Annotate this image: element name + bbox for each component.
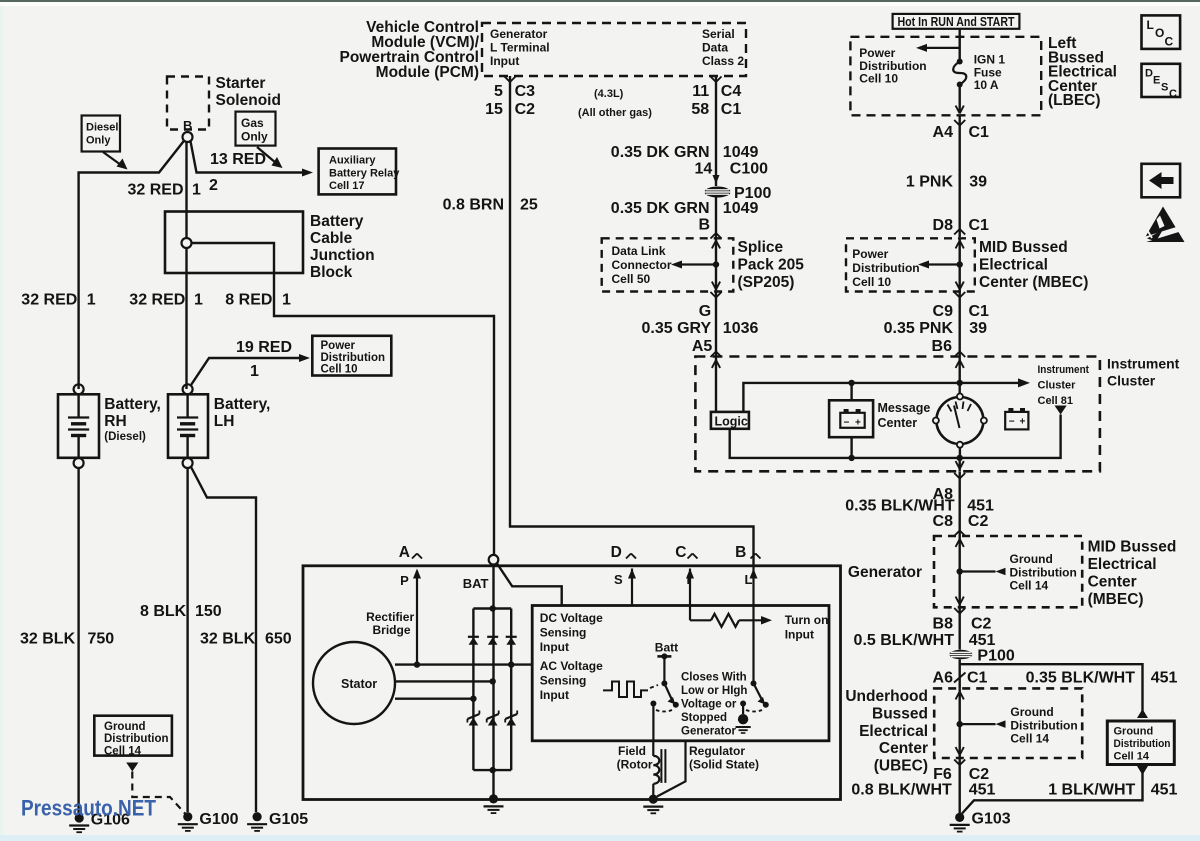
Diesel Only arrow	[103, 152, 121, 165]
svg-text:Splice: Splice	[738, 239, 784, 256]
cluster bottom bus	[730, 415, 1061, 458]
svg-text:Cable: Cable	[310, 230, 353, 247]
svg-text:11: 11	[692, 83, 709, 100]
stator output lines	[395, 663, 532, 665]
Ground Distribution Cell 14 box (left)	[94, 716, 172, 756]
battery LH	[183, 384, 193, 394]
svg-text:Data Link: Data Link	[612, 244, 666, 258]
A5 wire into logic	[715, 357, 717, 412]
svg-text:C1: C1	[721, 101, 742, 118]
ground G106	[75, 813, 84, 822]
svg-text:B6: B6	[932, 338, 953, 355]
svg-text:C: C	[1169, 88, 1177, 100]
svg-text:39: 39	[969, 320, 987, 337]
svg-text:Battery,: Battery,	[214, 396, 271, 413]
svg-text:Class 2: Class 2	[702, 54, 744, 68]
field ground	[649, 795, 658, 804]
DC voltage regulator box	[532, 606, 829, 741]
switch 1 to field	[652, 704, 654, 741]
svg-text:Only: Only	[86, 135, 111, 147]
svg-text:L Terminal: L Terminal	[490, 41, 550, 55]
svg-text:Cell 17: Cell 17	[329, 180, 364, 192]
wire: 0.35 PNK 39	[954, 292, 960, 298]
svg-text:1049: 1049	[723, 144, 759, 161]
cluster top bus	[743, 383, 1020, 412]
svg-text:Message: Message	[878, 401, 931, 415]
stator	[313, 642, 395, 724]
svg-text:14: 14	[695, 161, 713, 178]
svg-text:1 BLK/WHT: 1 BLK/WHT	[1048, 782, 1135, 799]
svg-text:Underhood: Underhood	[845, 688, 928, 705]
svg-text:LH: LH	[214, 413, 235, 430]
svg-text:Connector: Connector	[612, 258, 672, 272]
wire: battery RH to G106	[77, 468, 79, 814]
ground G100	[183, 812, 192, 821]
svg-text:Low or HIgh: Low or HIgh	[681, 685, 747, 697]
svg-text:C3: C3	[515, 83, 536, 100]
svg-text:B8: B8	[933, 616, 954, 633]
svg-text:19 RED: 19 RED	[236, 339, 292, 356]
wire: 32 RED junction block to battery LH	[185, 248, 187, 389]
svg-text:P: P	[400, 573, 409, 588]
svg-text:C100: C100	[730, 161, 768, 178]
svg-text:5: 5	[494, 83, 503, 100]
bridge diodes bottom (avalanche)	[467, 714, 479, 719]
svg-text:451: 451	[969, 632, 996, 649]
switch 1 (voltage relay contacts)	[661, 680, 667, 686]
svg-text:G103: G103	[972, 811, 1011, 828]
svg-text:A: A	[399, 544, 410, 561]
svg-text:1: 1	[282, 292, 291, 309]
svg-text:32 RED: 32 RED	[21, 292, 77, 309]
svg-text:Cell 10: Cell 10	[852, 275, 891, 289]
svg-text:Battery: Battery	[310, 213, 364, 230]
A6 C1 connector	[954, 673, 966, 683]
svg-text:F6: F6	[933, 766, 952, 783]
svg-text:(UBEC): (UBEC)	[874, 758, 928, 775]
svg-text:Center: Center	[878, 416, 918, 430]
svg-text:Battery,: Battery,	[104, 396, 161, 413]
svg-text:650: 650	[265, 631, 292, 648]
svg-text:C4: C4	[721, 83, 742, 100]
page top border line	[0, 0, 1200, 2]
svg-text:Hot In RUN And START: Hot In RUN And START	[898, 15, 1015, 29]
svg-text:451: 451	[1151, 670, 1178, 687]
svg-text:Input: Input	[785, 628, 814, 642]
svg-text:Distribution: Distribution	[1010, 718, 1077, 732]
BAT branch to DC voltage box	[497, 563, 562, 605]
svg-text:Ground: Ground	[1010, 705, 1053, 719]
svg-text:Cell 10: Cell 10	[321, 364, 358, 376]
wire from hot box into LBEC	[959, 29, 961, 61]
svg-text:(Rotor: (Rotor	[617, 758, 653, 772]
svg-text:C1: C1	[967, 670, 988, 687]
svg-text:Battery Relay: Battery Relay	[329, 167, 400, 179]
svg-text:Sensing: Sensing	[540, 674, 587, 688]
wire: 32 RED solenoid to junction block	[185, 142, 187, 238]
svg-text:O: O	[1155, 26, 1164, 40]
svg-text:32 BLK: 32 BLK	[200, 631, 256, 648]
svg-text:0.8 BRN: 0.8 BRN	[443, 197, 504, 214]
svg-text:Batt: Batt	[655, 641, 678, 655]
svg-text:Cell 81: Cell 81	[1038, 395, 1073, 407]
svg-text:C8: C8	[933, 513, 954, 530]
arrow to data link connector	[680, 263, 716, 265]
svg-text:0.35 DK GRN: 0.35 DK GRN	[611, 144, 710, 161]
Hot In RUN And START box	[893, 14, 1020, 29]
generator internal ground (bridge)	[489, 794, 498, 803]
svg-text:L: L	[1147, 18, 1154, 32]
gauge ticks and needle	[948, 405, 952, 412]
regulator to field/ground link	[657, 741, 686, 797]
MBEC ground distribution dashed box	[934, 536, 1082, 607]
svg-text:Cell 14: Cell 14	[1114, 751, 1150, 763]
IGN 1 fuse	[957, 59, 963, 65]
svg-text:−: −	[844, 417, 850, 428]
LBEC dashed box	[850, 37, 1041, 116]
svg-text:1: 1	[87, 292, 96, 309]
svg-text:Cluster: Cluster	[1038, 380, 1077, 392]
svg-text:Input: Input	[540, 688, 569, 702]
svg-text:(MBEC): (MBEC)	[1088, 591, 1144, 608]
svg-text:Bridge: Bridge	[373, 623, 411, 637]
svg-text:BAT: BAT	[463, 576, 489, 591]
arrowhead into P100	[713, 175, 720, 184]
svg-text:C: C	[675, 544, 686, 561]
svg-text:Ground: Ground	[1010, 552, 1053, 566]
svg-text:13 RED: 13 RED	[210, 151, 266, 168]
Power Distribution Cell 10 box	[312, 336, 391, 376]
svg-text:451: 451	[1151, 782, 1178, 799]
solenoid B terminal circle	[183, 132, 193, 142]
svg-text:A4: A4	[933, 124, 954, 141]
svg-text:B: B	[698, 217, 710, 234]
gauge to bottom bus	[959, 448, 961, 458]
svg-text:−: −	[1009, 417, 1015, 428]
Logic box	[711, 412, 749, 429]
svg-text:C1: C1	[969, 217, 990, 234]
svg-text:D: D	[1145, 68, 1153, 80]
UBEC dashed box	[934, 688, 1082, 758]
svg-text:Starter: Starter	[216, 75, 266, 92]
svg-text:S: S	[1161, 82, 1168, 94]
svg-text:Solenoid: Solenoid	[216, 92, 281, 109]
svg-text:Cell 14: Cell 14	[1010, 732, 1049, 746]
svg-text:1036: 1036	[723, 320, 759, 337]
svg-text:C2: C2	[968, 513, 989, 530]
svg-text:B: B	[183, 118, 192, 133]
voltage square wave symbol	[603, 682, 648, 698]
Data Link Connector dashed box / splice pack 205	[602, 238, 734, 291]
DESC icon	[1142, 64, 1181, 97]
svg-text:G: G	[699, 303, 711, 320]
wire through splice pack	[715, 238, 717, 291]
generator outer box	[303, 566, 841, 800]
gauge	[936, 397, 983, 444]
svg-text:C1: C1	[969, 303, 990, 320]
BAT wire down through bridge	[492, 565, 494, 799]
dashed ground link to G100	[132, 772, 185, 814]
svg-text:0.8 BLK/WHT: 0.8 BLK/WHT	[851, 782, 952, 799]
svg-text:E: E	[1153, 75, 1160, 87]
message center box	[848, 380, 854, 386]
VCM/PCM dashed box	[482, 23, 746, 76]
svg-text:C9: C9	[933, 303, 954, 320]
connector A4/C1	[954, 120, 960, 126]
svg-text:+: +	[1020, 417, 1026, 428]
svg-text:Module (PCM): Module (PCM)	[376, 64, 479, 81]
svg-text:Rectifier: Rectifier	[366, 610, 414, 624]
wire: 0.35 GRY to instrument cluster	[711, 292, 717, 298]
svg-text:Stopped: Stopped	[681, 712, 727, 724]
wire: 1 BLK/WHT 451 from right GD box to G103	[1137, 766, 1148, 775]
svg-text:Closes With: Closes With	[681, 672, 747, 684]
wire: battery LH bottom to G105 via 650	[191, 468, 256, 813]
svg-text:Input: Input	[540, 640, 569, 654]
splice P100 (lower)	[949, 650, 972, 660]
wire: 0.8 BLK/WHT 451 to G103	[954, 760, 960, 766]
svg-text:(Diesel): (Diesel)	[104, 431, 146, 443]
svg-text:Electrical: Electrical	[979, 257, 1048, 274]
svg-text:Cell 14: Cell 14	[1010, 579, 1049, 593]
svg-text:Power: Power	[852, 247, 888, 261]
ground G105	[253, 812, 262, 821]
svg-text:32 BLK: 32 BLK	[20, 631, 76, 648]
svg-text:Field: Field	[618, 744, 646, 758]
svg-text:(All other gas): (All other gas)	[578, 107, 652, 119]
small battery telltale	[1005, 412, 1028, 430]
svg-text:1: 1	[192, 182, 201, 199]
ESD warning symbol	[1143, 207, 1185, 243]
svg-text:Sensing: Sensing	[540, 626, 587, 640]
svg-text:(SP205): (SP205)	[738, 274, 795, 291]
svg-text:39: 39	[969, 174, 987, 191]
wire: diesel branch horizontal	[79, 141, 184, 389]
svg-text:32 RED: 32 RED	[128, 182, 184, 199]
turn on input resistor	[690, 619, 711, 621]
svg-text:Power: Power	[321, 340, 356, 352]
svg-text:Stator: Stator	[341, 677, 377, 691]
back arrow icon	[1142, 164, 1181, 198]
Gas Only box	[236, 112, 276, 146]
svg-text:Input: Input	[490, 54, 519, 68]
svg-text:1: 1	[250, 363, 259, 380]
svg-text:Instrument: Instrument	[1107, 356, 1180, 372]
svg-text:(LBEC): (LBEC)	[1048, 92, 1101, 109]
svg-text:1049: 1049	[723, 200, 759, 217]
svg-text:Center: Center	[1088, 574, 1137, 591]
svg-text:Distribution: Distribution	[1010, 565, 1077, 579]
switch 2 ground	[742, 704, 744, 715]
svg-text:Electrical: Electrical	[859, 723, 928, 740]
wire: 13 RED from B to aux relay	[191, 141, 304, 172]
svg-text:Generator: Generator	[681, 726, 736, 738]
svg-text:A6: A6	[933, 670, 954, 687]
svg-text:C2: C2	[971, 616, 992, 633]
svg-text:G100: G100	[199, 811, 238, 828]
svg-text:0.5 BLK/WHT: 0.5 BLK/WHT	[854, 632, 955, 649]
svg-text:Junction: Junction	[310, 247, 375, 264]
svg-text:Data: Data	[702, 41, 728, 55]
wire: 1 PNK 39	[959, 115, 961, 237]
svg-text:Generator: Generator	[848, 564, 922, 581]
triangle below left GD box	[126, 763, 138, 772]
svg-text:1: 1	[194, 292, 203, 309]
wire: 19 RED to power distribution	[191, 358, 300, 385]
svg-text:Center: Center	[879, 740, 928, 757]
MBEC power distribution dashed box	[846, 238, 975, 291]
svg-text:0.35 DK GRN: 0.35 DK GRN	[611, 200, 710, 217]
svg-text:Cell 14: Cell 14	[104, 745, 142, 757]
svg-text:MID Bussed: MID Bussed	[979, 239, 1068, 256]
svg-text:0.35 GRY: 0.35 GRY	[642, 320, 712, 337]
svg-text:58: 58	[691, 101, 709, 118]
wire: 0.8 BRN generator L terminal	[505, 77, 511, 83]
svg-text:Pack 205: Pack 205	[738, 257, 805, 274]
splice P100 (upper)	[705, 187, 731, 198]
svg-text:(Solid State): (Solid State)	[689, 758, 759, 772]
svg-text:Instrument: Instrument	[1038, 364, 1090, 376]
Ground Distribution Cell 14 box (right)	[1137, 709, 1148, 718]
svg-text:Block: Block	[310, 264, 353, 281]
svg-text:MID Bussed: MID Bussed	[1088, 539, 1177, 556]
svg-text:Serial: Serial	[702, 27, 735, 41]
Auxiliary Battery Relay Cell 17 box	[319, 149, 396, 195]
ground G103	[955, 813, 964, 822]
svg-text:8 RED: 8 RED	[225, 292, 272, 309]
cluster exit arrow A8	[959, 458, 961, 471]
svg-text:Auxiliary: Auxiliary	[329, 155, 376, 167]
svg-text:Regulator: Regulator	[689, 744, 745, 758]
arrow to power distribution cell 10	[925, 47, 960, 49]
svg-text:Only: Only	[241, 130, 268, 144]
wire: 0.5 BLK/WHT 451	[954, 608, 960, 614]
svg-text:Logic: Logic	[715, 415, 748, 429]
svg-text:0.35 PNK: 0.35 PNK	[884, 320, 954, 337]
Battery Cable Junction Block box	[165, 212, 303, 274]
svg-text:C: C	[1165, 35, 1174, 49]
svg-text:10 A: 10 A	[974, 78, 999, 92]
svg-text:C2: C2	[969, 766, 990, 783]
svg-text:Cell 10: Cell 10	[859, 72, 898, 86]
svg-text:750: 750	[88, 631, 115, 648]
wire: serial data class 2	[711, 77, 717, 83]
svg-text:RH: RH	[104, 413, 126, 430]
svg-text:Pressauto.NET: Pressauto.NET	[21, 796, 156, 821]
svg-text:C2: C2	[515, 101, 536, 118]
svg-text:451: 451	[969, 782, 996, 799]
svg-text:451: 451	[967, 498, 994, 515]
svg-text:Bussed: Bussed	[872, 705, 928, 722]
svg-text:Distribution: Distribution	[852, 261, 919, 275]
svg-text:150: 150	[195, 603, 222, 620]
battery RH	[74, 384, 84, 394]
Diesel Only box	[82, 116, 120, 152]
svg-text:Distribution: Distribution	[321, 352, 386, 364]
starter solenoid dashed box	[167, 77, 209, 130]
svg-text:D: D	[611, 544, 622, 561]
svg-text:0.35 BLK/WHT: 0.35 BLK/WHT	[1026, 670, 1136, 687]
svg-text:S: S	[614, 572, 623, 587]
wire: 0.35 BLK/WHT 451	[954, 473, 960, 479]
svg-text:Gas: Gas	[241, 116, 264, 130]
wire: battery LH to G100	[186, 468, 188, 812]
svg-text:Diesel: Diesel	[86, 122, 118, 134]
svg-text:B: B	[735, 544, 746, 561]
triangle under cell 81	[1055, 406, 1067, 415]
B6 wire to gauge	[959, 357, 961, 394]
svg-text:Electrical: Electrical	[1088, 556, 1157, 573]
svg-text:A5: A5	[692, 338, 713, 355]
svg-text:D8: D8	[933, 217, 954, 234]
svg-text:8 BLK: 8 BLK	[140, 603, 187, 620]
svg-text:Generator: Generator	[490, 27, 548, 41]
instrument cluster dashed box	[695, 357, 1100, 472]
bridge diodes top	[468, 636, 479, 638]
svg-text:2: 2	[209, 177, 218, 194]
svg-text:32 RED: 32 RED	[129, 292, 185, 309]
svg-text:G105: G105	[269, 811, 308, 828]
svg-text:1 PNK: 1 PNK	[906, 174, 954, 191]
svg-text:Distribution: Distribution	[104, 733, 169, 745]
page bottom strip	[0, 835, 1200, 841]
svg-text:DC Voltage: DC Voltage	[540, 611, 603, 625]
svg-text:Ground: Ground	[104, 721, 146, 733]
svg-text:P100: P100	[977, 648, 1014, 665]
LOC icon	[1142, 15, 1181, 49]
fuse output wire with down arrow	[959, 85, 961, 113]
svg-text:Ground: Ground	[1114, 726, 1154, 738]
svg-text:15: 15	[485, 101, 503, 118]
svg-text:Turn on: Turn on	[785, 613, 829, 627]
Gas Only arrow	[257, 147, 276, 163]
switch 2 (lamp contacts)	[751, 680, 757, 686]
branch to ground distribution cell 14 right	[959, 659, 961, 688]
svg-text:Cluster: Cluster	[1107, 373, 1156, 389]
svg-text:Voltage or: Voltage or	[681, 699, 737, 711]
rectifier bridge frame	[473, 607, 511, 609]
svg-text:AC Voltage: AC Voltage	[540, 659, 603, 673]
svg-text:C1: C1	[969, 124, 990, 141]
svg-text:Center (MBEC): Center (MBEC)	[979, 274, 1088, 291]
svg-text:0.35 BLK/WHT: 0.35 BLK/WHT	[845, 498, 955, 515]
svg-text:25: 25	[520, 197, 538, 214]
svg-text:+: +	[855, 417, 861, 428]
svg-text:Cell 50: Cell 50	[612, 272, 651, 286]
svg-text:(4.3L): (4.3L)	[594, 88, 624, 100]
junction block internal circle + wire	[182, 238, 192, 248]
svg-text:Distribution: Distribution	[1114, 738, 1171, 750]
